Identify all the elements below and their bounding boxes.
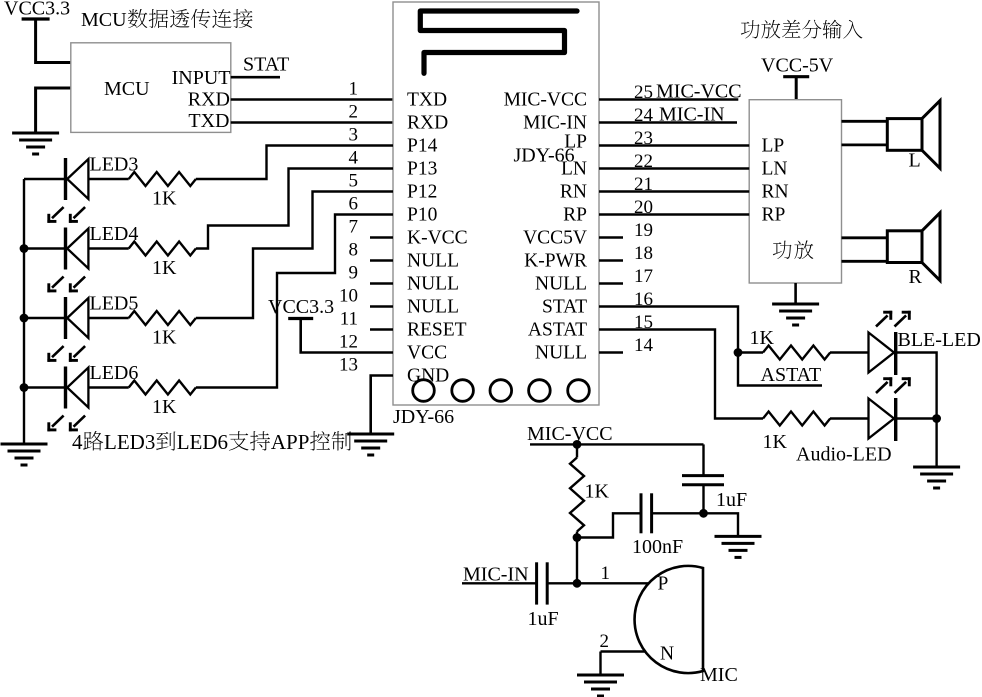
svg-text:100nF: 100nF [632,536,683,558]
svg-text:LED4: LED4 [90,223,139,245]
svg-text:LED6: LED6 [90,362,139,384]
svg-text:MIC: MIC [700,664,738,686]
svg-text:VCC3.3: VCC3.3 [4,0,70,20]
svg-text:MCU: MCU [104,78,150,100]
svg-text:1K: 1K [763,431,788,453]
svg-text:MIC-IN: MIC-IN [523,113,587,134]
svg-text:19: 19 [634,220,653,241]
svg-text:RN: RN [762,182,789,203]
svg-text:11: 11 [340,309,358,330]
svg-text:MIC-VCC: MIC-VCC [656,81,742,103]
svg-text:LP: LP [762,136,785,157]
svg-text:1K: 1K [152,396,177,418]
svg-text:RN: RN [560,182,587,203]
svg-text:3: 3 [349,125,359,146]
svg-text:13: 13 [339,355,358,376]
svg-text:6: 6 [349,194,359,215]
svg-text:1K: 1K [152,188,177,210]
svg-text:1: 1 [601,563,611,584]
svg-text:K-VCC: K-VCC [407,228,468,249]
svg-text:MIC-VCC: MIC-VCC [504,90,587,111]
svg-text:VCC: VCC [407,343,447,364]
svg-text:INPUT: INPUT [172,67,231,89]
svg-text:VCC5V: VCC5V [523,228,587,249]
svg-text:LED5: LED5 [90,293,139,315]
svg-text:K-PWR: K-PWR [524,251,587,272]
svg-text:P13: P13 [407,159,437,180]
svg-text:RESET: RESET [407,320,467,341]
svg-text:BLE-LED: BLE-LED [898,329,981,351]
svg-text:LN: LN [762,159,788,180]
svg-text:4: 4 [349,148,359,169]
svg-text:1K: 1K [750,327,775,349]
svg-text:P10: P10 [407,205,437,226]
svg-text:7: 7 [349,217,359,238]
svg-text:TXD: TXD [407,90,447,111]
svg-text:1K: 1K [152,327,177,349]
svg-text:VCC-5V: VCC-5V [761,55,834,77]
svg-text:1K: 1K [152,257,177,279]
svg-text:R: R [909,266,923,288]
svg-text:MCU: MCU [81,9,127,31]
svg-text:VCC3.3: VCC3.3 [268,296,334,318]
svg-text:STAT: STAT [243,54,289,76]
svg-text:APP: APP [271,430,310,454]
svg-text:RP: RP [563,205,587,226]
svg-text:L: L [909,150,921,172]
svg-text:10: 10 [339,286,358,307]
svg-text:STAT: STAT [542,297,587,318]
svg-text:17: 17 [634,266,653,287]
svg-text:RXD: RXD [407,113,448,134]
svg-text:Audio-LED: Audio-LED [796,444,892,466]
svg-text:12: 12 [339,332,358,353]
svg-text:P12: P12 [407,182,437,203]
svg-text:JDY-66: JDY-66 [393,406,454,428]
svg-text:NULL: NULL [535,343,587,364]
svg-text:RP: RP [762,205,786,226]
svg-text:MIC-VCC: MIC-VCC [527,423,613,445]
svg-text:1K: 1K [585,481,610,503]
svg-text:N: N [660,644,674,665]
svg-text:2: 2 [349,102,359,123]
svg-text:LED3: LED3 [90,154,139,176]
svg-text:LED3: LED3 [104,430,155,454]
svg-text:ASTAT: ASTAT [761,364,822,386]
svg-text:5: 5 [349,171,359,192]
svg-text:1uF: 1uF [528,608,559,630]
svg-text:NULL: NULL [407,251,459,272]
svg-text:8: 8 [349,240,359,261]
svg-text:P: P [658,574,669,595]
svg-text:TXD: TXD [188,110,229,132]
svg-text:NULL: NULL [407,297,459,318]
svg-text:P14: P14 [407,136,438,157]
svg-text:MIC-IN: MIC-IN [659,104,725,126]
svg-text:1: 1 [349,79,359,100]
svg-text:NULL: NULL [407,274,459,295]
svg-text:RXD: RXD [188,89,230,111]
svg-text:9: 9 [349,263,359,284]
svg-text:JDY-66: JDY-66 [514,145,575,167]
svg-text:14: 14 [634,335,654,356]
svg-text:LED6: LED6 [177,430,228,454]
svg-text:4: 4 [72,430,83,454]
svg-text:NULL: NULL [535,274,587,295]
svg-text:2: 2 [600,631,610,652]
svg-text:18: 18 [634,243,653,264]
svg-text:1uF: 1uF [716,489,747,511]
svg-text:ASTAT: ASTAT [528,320,587,341]
